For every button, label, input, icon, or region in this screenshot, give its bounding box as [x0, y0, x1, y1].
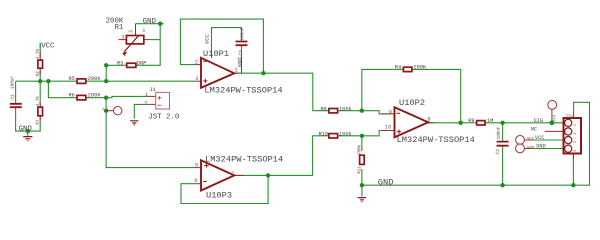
testpoint TP left [102, 107, 122, 115]
svg-text:R6: R6 [69, 92, 75, 98]
svg-text:GND: GND [143, 18, 157, 26]
pin stub R7 top [39, 102, 41, 107]
supply VCC symbol [40, 42, 55, 50]
connector J3 vcc/gnd pads [516, 136, 535, 153]
pin stub J1 pin2 [147, 103, 155, 105]
pin stub J2 shield top [573, 111, 575, 118]
wire U10P3 feedback loop [181, 175, 268, 203]
svg-text:R8: R8 [321, 107, 327, 113]
pin stub U10P1 out [234, 72, 239, 74]
wire R2/VCC branch [39, 43, 41, 107]
node SIG testpoint junction [550, 120, 555, 125]
svg-text:200K: 200K [88, 92, 102, 98]
node U10P3 output feedback [266, 173, 270, 177]
ground symbol bottom-left C1 [19, 125, 33, 140]
wire R6 branch to J1 pin1 [48, 81, 147, 98]
node R2 bias [38, 79, 42, 83]
svg-text:8: 8 [427, 117, 430, 123]
node R3 branch upper [104, 63, 108, 67]
pin stub J1 pin1 [147, 95, 155, 97]
pin stub U10P1 VCC power [211, 51, 213, 58]
svg-text:VCC: VCC [527, 138, 535, 142]
svg-text:NC: NC [531, 127, 537, 133]
wire U10P1 power VCC to C3 [212, 28, 242, 74]
resistor R8 [321, 107, 352, 113]
node R3 branch lower [104, 79, 108, 83]
svg-text:2: 2 [195, 59, 198, 65]
svg-text:100nF: 100nF [11, 76, 16, 89]
svg-text:100nF: 100nF [240, 27, 245, 40]
resistor R7 [36, 96, 43, 125]
svg-text:LM324PW-TSSOP14: LM324PW-TSSOP14 [397, 135, 475, 145]
pin stub U10P1 pin2 [195, 64, 201, 66]
svg-text:1: 1 [142, 28, 145, 34]
svg-text:LM324PW-TSSOP14: LM324PW-TSSOP14 [205, 154, 283, 164]
pin stub U10P1 pin3 [195, 80, 201, 82]
wire C1 branch [16, 81, 41, 131]
svg-text:R4: R4 [395, 65, 401, 71]
J2 pad 3 [565, 137, 572, 144]
op-amp U10P1 [195, 33, 283, 95]
svg-text:GND: GND [378, 178, 394, 188]
resistor R9 [468, 118, 493, 125]
J2 pad 4 [565, 145, 572, 152]
pin stub J2 shield bottom [572, 153, 574, 158]
svg-text:VCC: VCC [204, 33, 211, 44]
node pot GND junction [158, 22, 162, 26]
svg-text:200K: 200K [357, 144, 362, 155]
svg-text:100k: 100k [339, 107, 352, 113]
capacitor C2 [496, 126, 509, 154]
wire J1 pin2 to GND [134, 104, 147, 118]
pin stub J3 vcc [524, 139, 531, 141]
node R4 output junction [459, 121, 463, 125]
svg-text:3: 3 [121, 35, 124, 41]
wire pot pin1 to GND vertical [150, 39, 160, 41]
wire R11 branch [361, 136, 363, 185]
svg-text:R2: R2 [36, 71, 41, 77]
svg-text:DNP: DNP [137, 61, 147, 67]
wire net BIAS main horizontal to U10P1 pin3 [16, 80, 195, 82]
svg-text:GND: GND [527, 146, 535, 150]
node junction dots [26, 22, 576, 188]
svg-text:R3: R3 [117, 61, 123, 67]
svg-text:SIG: SIG [553, 114, 557, 122]
J2 pad 2 [565, 128, 572, 135]
svg-text:3: 3 [195, 76, 198, 82]
node J2 shield GND junction [571, 183, 575, 187]
ground symbol under J1 [130, 121, 138, 125]
op-amp U10P2 [385, 98, 475, 145]
svg-text:200K: 200K [414, 65, 428, 71]
wire U10P1 feedback loop [180, 19, 263, 73]
svg-text:1: 1 [145, 92, 148, 98]
pin stub pot pin2 [135, 24, 137, 36]
svg-text:R9: R9 [468, 118, 474, 124]
connector J2 [564, 114, 582, 154]
wire GND label net at pot pin2 [136, 23, 164, 25]
resistor R11 [357, 144, 364, 173]
pin stub U10P2 out [428, 122, 434, 124]
svg-text:R1: R1 [115, 24, 124, 32]
svg-text:C2: C2 [496, 149, 501, 155]
svg-text:1M: 1M [487, 118, 493, 124]
svg-text:R10: R10 [319, 131, 329, 137]
svg-text:7: 7 [231, 171, 234, 177]
pin stub U10P1 GND power [241, 56, 243, 73]
svg-text:U10P3: U10P3 [206, 191, 232, 201]
op-amp U10P3 [194, 154, 283, 200]
node C1 GND [26, 129, 30, 133]
connector J1 JST [145, 87, 180, 121]
resistor R10 [319, 131, 352, 138]
svg-text:C3: C3 [239, 50, 244, 56]
J2 pad 1 [565, 119, 572, 126]
pin stub R2 bottom [39, 68, 41, 75]
red pin stubs [40, 24, 573, 184]
node R10 R11 junction [360, 134, 364, 138]
svg-text:2: 2 [145, 100, 148, 106]
svg-text:R7: R7 [36, 119, 41, 125]
pin stub U10P3 out [234, 174, 244, 176]
resistor R6 [69, 92, 102, 100]
svg-text:4.7K: 4.7K [36, 96, 41, 107]
node testpoint stub [104, 109, 108, 113]
svg-text:SIG: SIG [534, 118, 544, 124]
pin stub SIG testpoint [551, 109, 553, 116]
pin stub U10P3 pin6 [195, 183, 201, 185]
ground symbol under R11 [358, 198, 366, 202]
resistor R2 [36, 48, 43, 76]
svg-text:J1: J1 [149, 87, 155, 93]
svg-text:GND: GND [19, 125, 33, 133]
pin stub U10P2 pin10 [381, 130, 395, 132]
svg-text:1: 1 [235, 67, 238, 73]
svg-text:C1: C1 [11, 94, 16, 100]
pin stub U10P3 pin5 [195, 167, 201, 169]
wire VCC row to J2 [524, 139, 563, 141]
svg-text:GND: GND [236, 57, 243, 68]
svg-text:U10P1: U10P1 [203, 49, 229, 59]
node R6 testpoint [104, 96, 108, 100]
node C2 SIG junction [500, 121, 504, 125]
pin stub R7 bottom [39, 116, 41, 121]
svg-text:9: 9 [389, 109, 392, 115]
pin stub R2 top [39, 51, 41, 60]
pin stub J2 NC [545, 130, 564, 132]
svg-text:2: 2 [128, 30, 134, 33]
wire C2 branch [502, 123, 504, 185]
potentiometer R1 [106, 18, 146, 56]
svg-text:100nF: 100nF [497, 126, 502, 139]
wire testpoint branch down to U10P3 pin5 [106, 98, 195, 168]
svg-text:LM324PW-TSSOP14: LM324PW-TSSOP14 [204, 86, 282, 96]
pin stub U10P2 pin9 [381, 113, 395, 115]
node R6 branch [46, 79, 50, 83]
wire R3 branch [106, 24, 160, 81]
node R8 R4 junction [360, 109, 364, 113]
wire U10P1 output to R8 to U10P2 pin9 [234, 73, 389, 114]
capacitor C3 [236, 27, 248, 55]
svg-text:R11: R11 [357, 166, 362, 174]
svg-text:GND: GND [536, 144, 546, 150]
wire GND net bottom and J2 shield loop [362, 102, 590, 185]
pin stub pot pin1 [144, 39, 150, 41]
pin stub J3 gnd [524, 148, 531, 150]
svg-text:JST 2.0: JST 2.0 [148, 113, 179, 121]
testpoint SIG top right [548, 101, 558, 122]
resistor R4 [395, 65, 427, 72]
wire GND symbol stub under R11 [361, 185, 363, 196]
svg-text:R5: R5 [69, 76, 75, 82]
svg-text:VCC: VCC [41, 42, 55, 50]
svg-text:4.7K: 4.7K [36, 48, 41, 59]
wire U10P3 output to R10 to U10P2 pin10 [234, 131, 389, 176]
svg-text:100k: 100k [339, 131, 352, 137]
wire SIG net U10P2 output to J2 [428, 122, 563, 124]
svg-text:10: 10 [385, 124, 391, 130]
capacitor C1 [10, 76, 22, 108]
wire GND row to J2 [524, 148, 563, 150]
wire SIG testpoint stub [551, 116, 553, 123]
resistor R5 [69, 76, 102, 84]
svg-text:6: 6 [194, 178, 197, 184]
svg-text:5: 5 [195, 162, 198, 168]
svg-text:VCC: VCC [535, 135, 545, 141]
node C2 GND junction [500, 183, 504, 187]
pin stub pot pin3 [118, 39, 126, 41]
wire R4 feedback loop [362, 69, 461, 122]
svg-text:200K: 200K [88, 76, 102, 82]
node R11 GND junction [360, 183, 364, 187]
resistor R3 DNP [117, 61, 146, 68]
pin stub testpoint TP [106, 110, 113, 112]
svg-text:U10P2: U10P2 [399, 98, 425, 108]
node U10P1 output feedback [261, 71, 265, 75]
